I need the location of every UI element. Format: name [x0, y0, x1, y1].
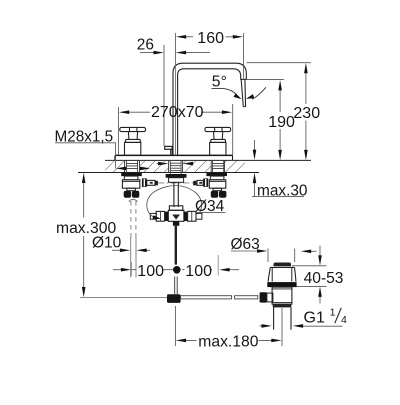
spout outlet tube (5 deg) [241, 80, 245, 107]
270x70 [119, 110, 129, 114]
hose dash-dot line between valves [158, 182, 193, 184]
shank in center hole [170, 160, 181, 174]
dim 26 ext lines [163, 45, 165, 146]
Ø63 [257, 249, 267, 253]
100s [121, 268, 131, 272]
right handle [205, 127, 231, 155]
gasket [267, 282, 296, 287]
counter top line [105, 159, 311, 161]
230 [304, 63, 308, 73]
tee down port [173, 221, 179, 226]
svg-text:1: 1 [330, 306, 336, 318]
thin link line left [80, 297, 167, 299]
hatched counter segments [105, 161, 125, 172]
tee top nut [169, 206, 182, 211]
M28 arrows [116, 167, 126, 171]
max.30 [253, 150, 257, 160]
svg-text:5°: 5° [212, 73, 227, 90]
svg-text:26: 26 [137, 36, 154, 53]
svg-text:Ø10: Ø10 [92, 235, 122, 252]
svg-text:270x70: 270x70 [151, 104, 204, 121]
svg-text:G1: G1 [304, 309, 325, 326]
tailpipe [274, 307, 291, 329]
max.300 [83, 177, 85, 294]
center hole arrows [158, 162, 168, 166]
bottom band [273, 304, 292, 307]
svg-text:max.30: max.30 [257, 182, 307, 199]
svg-text:4: 4 [341, 314, 347, 326]
Ø34 leader [195, 212, 225, 214]
Ø10 arrows [112, 249, 150, 251]
dim 160 ext right [243, 33, 245, 80]
flare cup [270, 266, 294, 268]
Ø34 leader arrow [153, 215, 162, 221]
lower body [272, 287, 292, 304]
40-53 [318, 255, 322, 265]
left handle [120, 127, 146, 155]
center hole arrows lines [157, 163, 194, 165]
clamp joint [167, 294, 181, 303]
dim 190 [247, 79, 284, 81]
tee block [168, 210, 184, 221]
counter bottom line [78, 171, 259, 173]
svg-text:Ø34: Ø34 [195, 198, 225, 215]
svg-text:Ø63: Ø63 [231, 236, 260, 253]
160 [176, 35, 186, 39]
pop-up rod below tee [175, 226, 177, 265]
svg-text:190: 190 [268, 114, 295, 131]
5 deg arcs [212, 88, 237, 94]
max.180 [175, 306, 282, 346]
max.180 [176, 339, 186, 343]
dim 26 lines [140, 52, 210, 54]
shank in right hole [213, 160, 224, 172]
tee right port [184, 212, 188, 221]
svg-text:M28x1,5: M28x1,5 [55, 128, 114, 145]
max.30 [252, 140, 304, 197]
26 [154, 51, 164, 55]
190 [278, 80, 282, 90]
G1 1/4 [262, 324, 272, 328]
horizontal actuating rod [181, 296, 232, 299]
plug cap [274, 263, 292, 267]
svg-text:230: 230 [293, 105, 320, 122]
hole walls [125, 160, 225, 172]
dim 270x70 lines [123, 111, 230, 113]
spout inner contour [178, 69, 241, 156]
svg-text:160: 160 [197, 30, 224, 47]
Ø63 [231, 250, 317, 252]
svg-text:40-53: 40-53 [304, 270, 344, 287]
100-100 dim [113, 269, 239, 271]
left valve outlet bottom arc [129, 200, 137, 202]
max.300 [82, 173, 86, 183]
G1 1/4 [260, 325, 343, 327]
dim 160 lines [180, 36, 241, 38]
100-100 center dot [173, 266, 181, 274]
spout outlet step [240, 78, 246, 80]
rod-to-drain connector [260, 292, 267, 302]
dim 270x70 ext [118, 104, 232, 155]
tee left port [165, 212, 169, 221]
svg-text:100: 100 [137, 263, 164, 280]
dim 230 [247, 62, 312, 64]
svg-text:100: 100 [185, 263, 212, 280]
40-53 [292, 266, 327, 287]
pop-up pull rod above deck [165, 146, 173, 155]
Ø10 [120, 249, 130, 253]
spout outer contour [173, 63, 246, 155]
M28x1,5 leader [55, 143, 116, 169]
shank in left hole [126, 160, 137, 172]
svg-text:max.180: max.180 [198, 334, 258, 351]
